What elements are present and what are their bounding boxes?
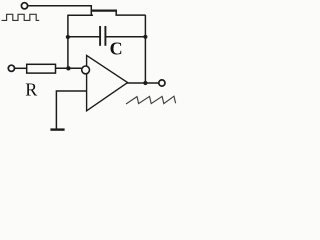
junction node at inverting input — [66, 66, 70, 70]
output terminal — [159, 80, 165, 86]
capacitor C right plate — [104, 26, 106, 46]
wire from capacitor right plate — [106, 36, 146, 38]
wire resistor to inverting input — [56, 67, 84, 69]
ground bar — [50, 128, 64, 130]
inverting input bubble — [82, 66, 90, 74]
wire terminal to resistor — [15, 67, 27, 69]
svg-text:R: R — [25, 80, 37, 100]
non-inverting input wire — [56, 91, 86, 129]
junction node at feedback/capacitor — [143, 35, 147, 39]
capacitor C left plate — [99, 26, 101, 46]
sawtooth wave symbol — [126, 96, 176, 104]
junction node at capacitor left — [66, 35, 70, 39]
output wire — [127, 82, 159, 84]
wire: switch lower-left segment — [68, 14, 93, 16]
input terminal (switch control) — [21, 3, 27, 9]
input terminal (signal in) — [8, 65, 14, 71]
wire: left vertical (inverting node) — [67, 15, 69, 69]
feedback vertical wire — [144, 15, 146, 83]
svg-text:C: C — [110, 38, 123, 58]
resistor R body — [27, 64, 56, 73]
switch right post — [116, 11, 145, 16]
op-amp U1 triangle — [87, 55, 128, 110]
wire to capacitor left plate — [68, 36, 100, 38]
wire from control terminal to switch — [28, 6, 91, 16]
square wave symbol — [2, 14, 40, 20]
junction node at output — [143, 81, 147, 85]
switch S blade — [91, 9, 117, 11]
